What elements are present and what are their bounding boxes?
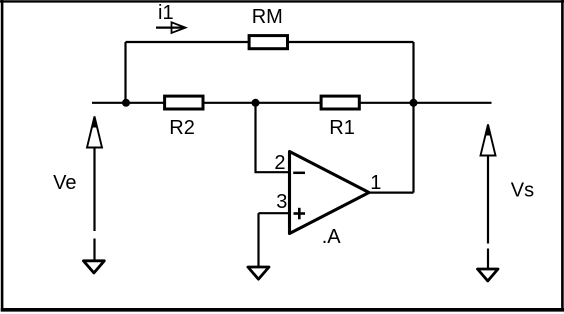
wire: feedback top right segment (287, 41, 414, 43)
op-amp minus sign (293, 172, 305, 175)
ground (Ve reference) (83, 261, 104, 273)
current arrow i1 (156, 22, 186, 33)
wire: main net between node A and node B (126, 102, 256, 104)
node B junction dot (252, 99, 260, 107)
wire: feedback vertical right (412, 42, 414, 103)
wire: non-inverting input vertical to ground (257, 213, 259, 267)
wire: feedback top left segment (126, 41, 251, 43)
op-amp plus sign (294, 208, 306, 220)
resistor R2 (165, 96, 203, 109)
op-amp U.A (290, 152, 370, 234)
svg-text:1: 1 (370, 172, 381, 194)
svg-text:Vs: Vs (511, 179, 534, 201)
node C junction dot (410, 99, 418, 107)
wire: inverting input vertical from node B (254, 103, 256, 172)
svg-text:RM: RM (252, 6, 283, 28)
wire: non-inverting input horizontal pin 3 (259, 212, 291, 214)
node A junction dot (122, 99, 130, 107)
wire: feedback vertical left (124, 42, 126, 103)
resistor RM (249, 36, 287, 49)
svg-text:i1: i1 (158, 2, 174, 24)
wire: op-amp output horizontal (369, 192, 414, 194)
svg-text:R2: R2 (169, 117, 195, 139)
ground (op-amp pin 3) (248, 267, 269, 279)
svg-text:.A: .A (322, 226, 342, 248)
voltage arrow Ve (87, 116, 102, 261)
wire: main horizontal net, left stub (92, 102, 126, 104)
svg-text:2: 2 (274, 152, 285, 174)
svg-text:3: 3 (276, 191, 287, 213)
svg-text:R1: R1 (329, 117, 355, 139)
wire: main net right stub to Vs (414, 102, 492, 104)
wire: main net between node B and node C (256, 102, 414, 104)
resistor R1 (321, 96, 359, 109)
voltage arrow Vs (481, 124, 496, 269)
wire: op-amp output vertical up to node C (412, 103, 414, 193)
wire: inverting input horizontal to pin 2 (255, 171, 291, 173)
ground (Vs reference) (478, 269, 499, 281)
svg-text:Ve: Ve (53, 172, 76, 194)
